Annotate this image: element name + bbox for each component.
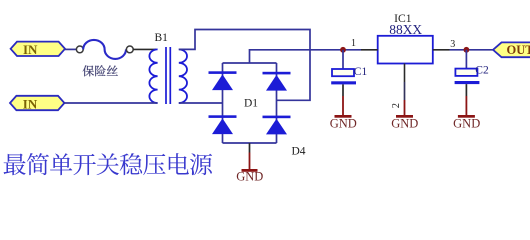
junction node at C2/output	[464, 47, 470, 53]
svg-text:GND: GND	[236, 170, 263, 184]
bridge bottom rail wire	[223, 142, 277, 144]
svg-text:C1: C1	[354, 66, 368, 78]
wire IC1 output bus	[450, 49, 494, 51]
ground (C2)	[453, 96, 480, 131]
port IN (bottom input)	[10, 96, 64, 112]
bridge left branch wire	[222, 63, 224, 143]
svg-text:B1: B1	[155, 32, 169, 44]
svg-text:88XX: 88XX	[389, 22, 422, 37]
svg-text:GND: GND	[391, 117, 418, 131]
ground (IC1 pin 2)	[391, 100, 418, 131]
diode D4 lower-right	[263, 116, 291, 135]
wire fuse to transformer primary (pin)	[133, 48, 156, 50]
wire junction down to C1	[342, 50, 344, 69]
port OUT	[493, 42, 530, 57]
diode D1 upper-left	[209, 71, 237, 90]
svg-text:IN: IN	[23, 97, 38, 112]
svg-text:C2: C2	[475, 64, 489, 76]
svg-text:D1: D1	[244, 97, 258, 109]
port IN (top input)	[11, 42, 65, 58]
label 保险丝 (fuse)	[83, 65, 118, 76]
junction node at C1/IC1 input	[340, 47, 346, 53]
diode upper-right	[263, 72, 291, 91]
bridge right branch wire	[276, 63, 278, 143]
wire junction down to C2	[465, 50, 467, 69]
capacitor C1	[331, 66, 367, 84]
transformer B1 core	[166, 47, 170, 104]
wire IN to fuse	[65, 48, 76, 50]
wire secondary top to bridge right AC node	[179, 30, 310, 101]
ground (C1)	[330, 96, 357, 131]
regulator U IC1	[378, 12, 433, 63]
transformer B1 primary winding	[149, 49, 157, 103]
transformer B1 secondary winding	[179, 49, 187, 103]
capacitor C2	[455, 64, 489, 84]
pin 1 of IC1	[351, 38, 378, 50]
wire C1 to ground	[342, 84, 344, 96]
pin 3 of IC1	[433, 39, 456, 50]
wire IN2 to primary bottom	[64, 102, 157, 104]
svg-text:1: 1	[351, 38, 356, 49]
wire pin2 to ground	[404, 82, 406, 100]
fuse 保险丝	[76, 40, 133, 59]
bridge top rail wire	[223, 62, 277, 64]
svg-text:IN: IN	[23, 42, 38, 57]
pin 2 of IC1	[391, 64, 404, 109]
svg-text:GND: GND	[330, 117, 357, 131]
wire C2 to ground	[465, 84, 467, 96]
wire bridge + output riser to bus	[250, 50, 362, 63]
svg-text:3: 3	[450, 39, 455, 50]
wire secondary bottom to bridge left AC node	[179, 102, 223, 104]
svg-text:OUT: OUT	[507, 43, 530, 57]
ground (bridge negative)	[236, 143, 263, 184]
svg-text:D4: D4	[292, 145, 306, 157]
svg-text:2: 2	[391, 103, 402, 108]
title 最简单开关稳压电源	[4, 153, 213, 175]
diode lower-left	[209, 115, 237, 134]
svg-text:GND: GND	[453, 117, 480, 131]
